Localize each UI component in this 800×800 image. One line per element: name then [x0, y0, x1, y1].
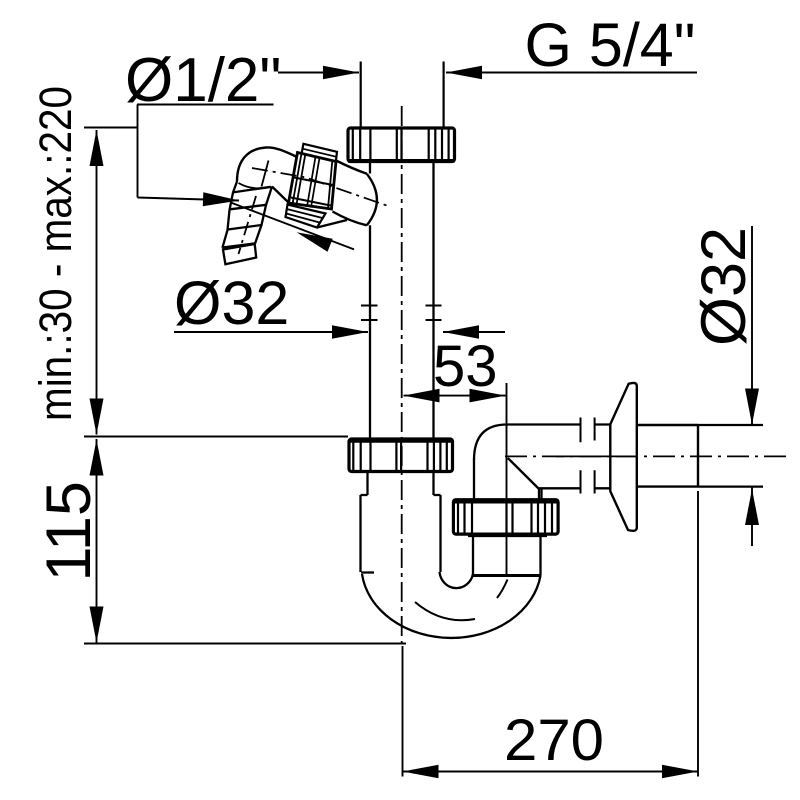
svg-text:G 5/4": G 5/4" [525, 11, 696, 79]
svg-text:115: 115 [34, 481, 104, 581]
svg-text:270: 270 [504, 708, 604, 773]
svg-text:min.:30 - max.:220: min.:30 - max.:220 [30, 86, 81, 421]
svg-text:Ø32: Ø32 [174, 269, 289, 337]
svg-text:53: 53 [433, 334, 498, 399]
svg-text:Ø32: Ø32 [689, 227, 759, 346]
